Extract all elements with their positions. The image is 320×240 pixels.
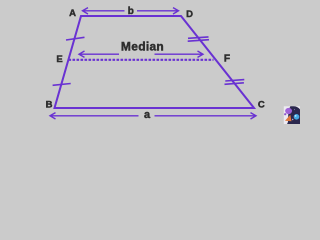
purple blob <box>285 108 292 114</box>
dimension arrow b (top, double-headed) <box>83 8 179 14</box>
trapezoid ABCD outline <box>55 16 255 108</box>
orange face triangle <box>285 115 292 121</box>
avatar thumbnail (bottom-right) <box>284 106 301 125</box>
svg-text:Median: Median <box>121 40 164 54</box>
navy hair mass <box>286 106 301 125</box>
median arrow (solid, double-headed) <box>79 51 203 57</box>
single tick on segment AE <box>66 37 85 40</box>
single tick on segment EB <box>53 84 71 86</box>
svg-text:A: A <box>69 8 76 19</box>
double tick on segment FC <box>225 80 245 85</box>
svg-text:a: a <box>144 109 151 121</box>
svg-text:C: C <box>258 99 265 110</box>
svg-text:E: E <box>56 54 62 65</box>
double tick on segment DF <box>188 37 209 41</box>
svg-text:B: B <box>46 99 53 110</box>
median segment EF (dashed) <box>69 59 214 61</box>
cyan circle <box>294 114 300 120</box>
svg-text:b: b <box>128 6 134 17</box>
white specks <box>292 119 293 120</box>
svg-text:F: F <box>224 54 230 65</box>
dimension arrow a (bottom, double-headed) <box>50 113 256 119</box>
svg-text:D: D <box>186 9 193 20</box>
